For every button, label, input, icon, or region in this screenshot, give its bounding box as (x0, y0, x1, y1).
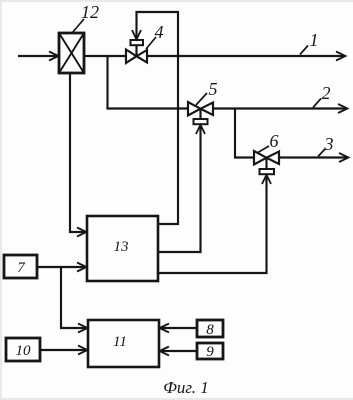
wire: block 7 to block 13 (37, 263, 87, 272)
label 12 (72, 2, 99, 33)
svg-text:Фиг. 1: Фиг. 1 (163, 378, 209, 397)
wire: valve 5 to output line 2 with arrow (213, 104, 348, 113)
label 3 (318, 134, 334, 157)
wire: unit 12 output down into block 13 (70, 73, 87, 237)
svg-text:7: 7 (17, 260, 26, 276)
svg-text:12: 12 (81, 2, 99, 22)
svg-text:5: 5 (209, 79, 218, 99)
block 11 (88, 320, 159, 367)
node: branch junction on main line (0, 0, 1, 1)
wire: block 8 to block 11 (160, 324, 198, 333)
valve 6 (254, 151, 279, 174)
svg-text:9: 9 (206, 344, 214, 360)
valve 5 (188, 102, 213, 124)
label 2 (313, 83, 331, 108)
wire: control line from unit 13 to valve 6 actuator (158, 175, 271, 273)
valve 4 (126, 40, 147, 63)
label 4 (146, 22, 164, 49)
svg-text:2: 2 (322, 83, 331, 103)
svg-text:6: 6 (270, 131, 279, 151)
label 6 (257, 131, 279, 153)
label 5 (196, 79, 218, 105)
wire: control line from unit 13 up and over to valve 4 actuator (132, 12, 178, 224)
wire: block 10 to block 11 (40, 346, 88, 355)
label 1 (300, 30, 319, 55)
svg-text:3: 3 (324, 134, 334, 154)
heat exchanger 12 (59, 33, 84, 73)
wire: inlet line into unit 12 (18, 52, 59, 61)
wire: branch from main line down to valve 5 feed (108, 56, 189, 109)
wire: control line from unit 13 up to valve 5 actuator (158, 125, 205, 252)
wire: valve 6 to output line 3 with arrow (279, 153, 349, 162)
block 8 (197, 320, 223, 337)
svg-text:4: 4 (155, 22, 164, 42)
block 9 (197, 343, 223, 359)
wire: branch from line 2 down to valve 6 feed (235, 109, 254, 158)
svg-text:10: 10 (16, 343, 32, 359)
wire: unit 12 to valve 4 (84, 55, 126, 57)
svg-text:1: 1 (310, 30, 319, 50)
wire: block 9 to block 11 (160, 347, 198, 356)
svg-text:13: 13 (114, 239, 129, 255)
wire: branch from block 7 line down to block 11 (61, 267, 88, 333)
svg-text:11: 11 (113, 334, 127, 350)
block 7 (4, 255, 37, 278)
wire: valve 4 to output line 1 with arrow (147, 52, 346, 61)
block 10 (6, 338, 40, 361)
svg-text:8: 8 (206, 322, 214, 338)
block 13 (control unit) (87, 216, 158, 281)
